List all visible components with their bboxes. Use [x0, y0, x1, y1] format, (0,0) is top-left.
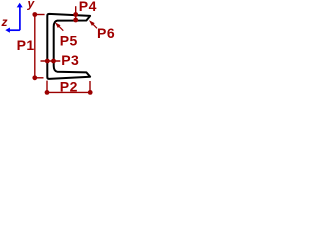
channel section outline: [47, 14, 90, 79]
svg-text:P6: P6: [97, 25, 115, 41]
blue axes: [5, 3, 22, 33]
red markers: [32, 6, 97, 95]
P4 leader: [75, 6, 77, 20]
P5 arrow: [59, 26, 64, 31]
axis y (vertical arrow): [19, 7, 21, 30]
svg-text:P3: P3: [61, 52, 79, 68]
axis z (horizontal arrow): [9, 29, 20, 31]
svg-text:P4: P4: [79, 0, 97, 14]
svg-text:P1: P1: [17, 37, 35, 53]
P3 leader: [41, 60, 61, 62]
P6 arrow: [92, 23, 97, 28]
svg-text:P5: P5: [60, 33, 78, 49]
svg-text:z: z: [1, 15, 8, 29]
svg-text:y: y: [27, 0, 36, 11]
P2 leader: [46, 81, 48, 93]
svg-text:P2: P2: [60, 78, 78, 94]
point labels: [17, 0, 116, 94]
P1 vertical reference line: [35, 14, 45, 16]
